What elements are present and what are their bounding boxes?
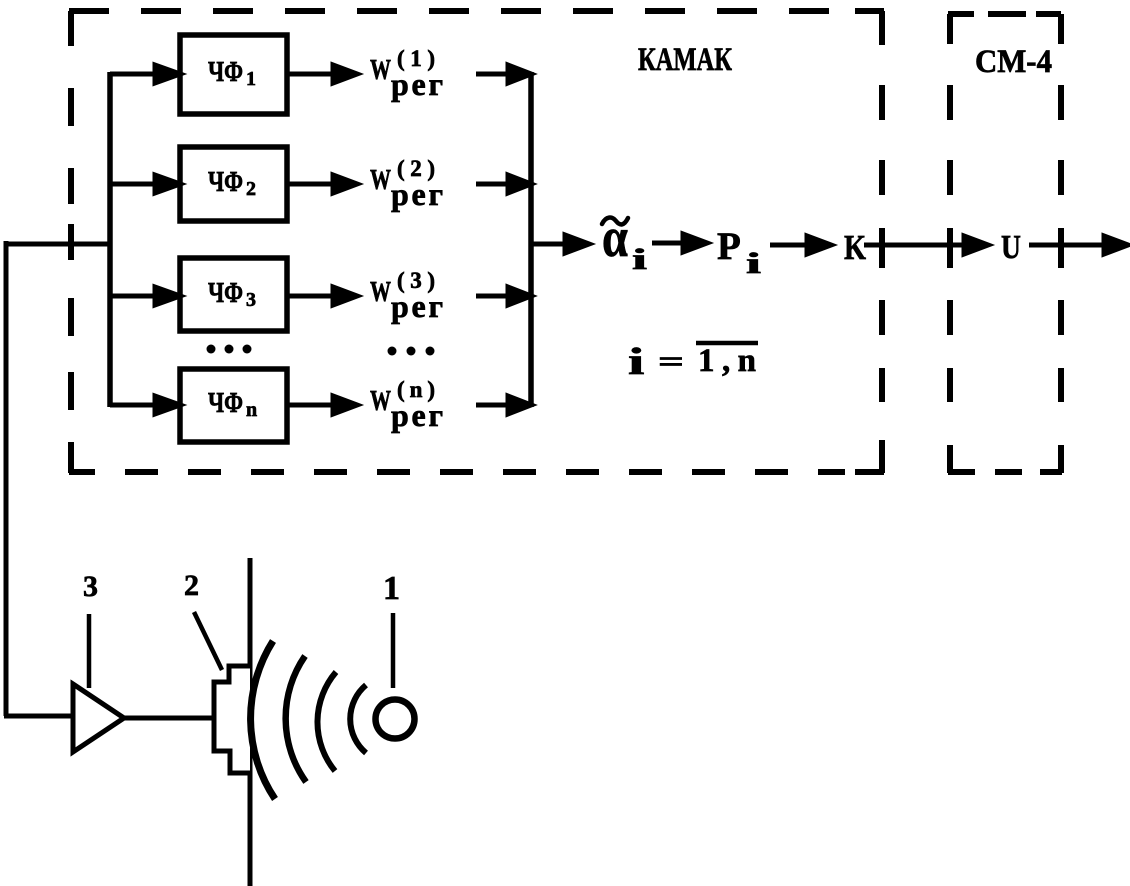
svg-text:2: 2 — [184, 569, 199, 602]
svg-text:3: 3 — [83, 570, 98, 603]
svg-text:W: W — [370, 385, 391, 417]
svg-text:W: W — [370, 276, 391, 308]
svg-text:ЧФ: ЧФ — [208, 279, 243, 309]
svg-text:P: P — [717, 225, 741, 268]
svg-text:2: 2 — [246, 178, 256, 200]
svg-text:рег: рег — [391, 176, 443, 212]
svg-text:i: i — [628, 340, 645, 382]
svg-text:=: = — [658, 345, 684, 378]
svg-text:i: i — [632, 243, 647, 276]
svg-text:СМ-4: СМ-4 — [975, 43, 1052, 79]
svg-text:W: W — [370, 164, 391, 196]
svg-text:ЧФ: ЧФ — [208, 168, 243, 198]
svg-text:W: W — [370, 54, 391, 86]
svg-text:U: U — [1001, 227, 1021, 265]
svg-text:1,n: 1,n — [698, 343, 756, 379]
svg-text:рег: рег — [391, 397, 443, 433]
svg-text:КАМАК: КАМАК — [638, 42, 732, 78]
svg-text:ЧФ: ЧФ — [208, 58, 243, 88]
svg-text:i: i — [746, 247, 761, 280]
svg-text:K: K — [844, 228, 866, 266]
svg-text:рег: рег — [391, 66, 443, 102]
svg-text:рег: рег — [391, 288, 443, 324]
svg-text:n: n — [246, 399, 257, 421]
svg-text:1: 1 — [246, 68, 256, 90]
svg-text:1: 1 — [383, 570, 400, 607]
svg-text:ЧФ: ЧФ — [208, 389, 243, 419]
svg-text:3: 3 — [246, 289, 256, 311]
